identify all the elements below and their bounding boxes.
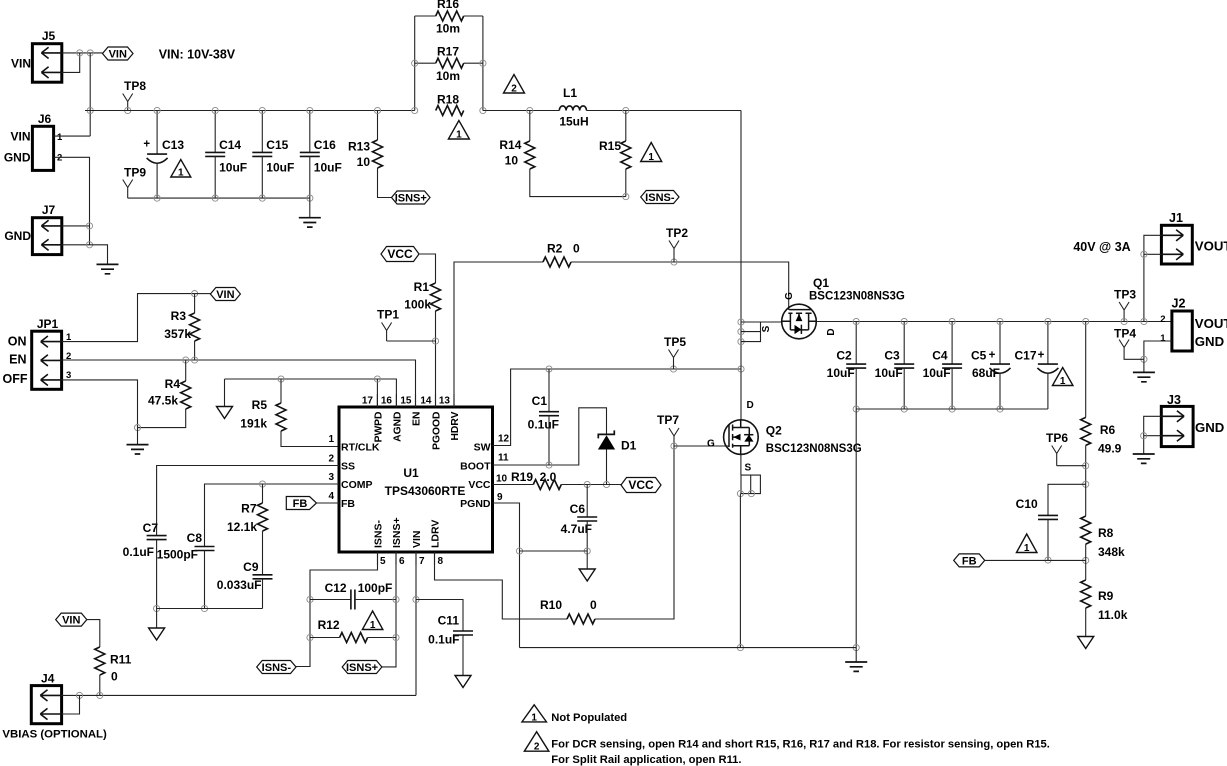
svg-text:0.1uF: 0.1uF	[528, 418, 559, 432]
svg-text:J7: J7	[42, 203, 56, 217]
connector JP1	[32, 331, 62, 389]
svg-text:49.9: 49.9	[1098, 442, 1122, 456]
svg-text:1: 1	[648, 152, 654, 163]
svg-text:SS: SS	[341, 461, 355, 473]
wire L1 to SW corner	[587, 110, 742, 112]
svg-text:10uF: 10uF	[314, 161, 342, 175]
svg-text:10m: 10m	[436, 69, 460, 83]
wire R10 to Q2 gate node	[595, 446, 674, 619]
svg-text:10m: 10m	[436, 22, 460, 36]
connector J4	[31, 686, 61, 724]
wire Q2 source to gnd bus	[739, 494, 741, 648]
wire JP1 pin3 to gnd	[62, 380, 138, 428]
svg-text:VIN: 10V-38V: VIN: 10V-38V	[159, 48, 236, 62]
svg-text:S: S	[745, 463, 752, 474]
svg-text:BSC123N08NS3G: BSC123N08NS3G	[766, 443, 862, 455]
svg-text:10: 10	[496, 474, 508, 485]
svg-text:TP7: TP7	[657, 413, 679, 427]
svg-text:1: 1	[531, 712, 537, 723]
svg-text:2.0: 2.0	[540, 470, 557, 484]
wire AGND pin17 drop	[376, 379, 378, 407]
wire J1 to rail	[1144, 235, 1162, 321]
wire SW vertical	[740, 111, 742, 420]
svg-text:ISNS+: ISNS+	[391, 517, 403, 548]
svg-text:1: 1	[1160, 333, 1166, 344]
svg-text:TP3: TP3	[1114, 288, 1136, 302]
svg-text:C11: C11	[438, 614, 460, 628]
svg-text:R16: R16	[437, 0, 459, 11]
svg-text:0.1uF: 0.1uF	[123, 545, 154, 559]
net flag VCC at R19	[621, 478, 661, 493]
svg-text:ISNS-: ISNS-	[645, 192, 675, 204]
note triangle 2	[504, 75, 525, 94]
svg-text:R13: R13	[348, 140, 370, 154]
wire J7 gnd to ground	[90, 245, 108, 265]
wire VIN rail	[85, 110, 415, 112]
svg-text:10uF: 10uF	[266, 161, 294, 175]
ground below J2	[1143, 359, 1145, 372]
svg-text:PGND: PGND	[460, 498, 491, 510]
svg-text:13: 13	[439, 396, 451, 407]
svg-text:11.0k: 11.0k	[1098, 608, 1128, 622]
svg-text:COMP: COMP	[341, 479, 373, 491]
wire input cap bottom bus	[128, 197, 310, 199]
wire VCC pin10 net	[493, 484, 534, 486]
ground bus bottom	[520, 647, 857, 649]
svg-text:1: 1	[456, 130, 462, 141]
svg-text:10: 10	[505, 154, 519, 168]
svg-text:TPS43060RTE: TPS43060RTE	[385, 484, 466, 498]
svg-text:C5: C5	[971, 349, 987, 363]
svg-text:ISNS+: ISNS+	[395, 193, 427, 205]
wire SW pin12 to TP5 row	[493, 369, 742, 446]
svg-text:G: G	[707, 439, 715, 450]
svg-text:100pF: 100pF	[358, 581, 393, 595]
svg-text:JP1: JP1	[37, 317, 59, 331]
svg-text:1: 1	[1060, 376, 1066, 387]
svg-text:C3: C3	[884, 349, 900, 363]
svg-text:J4: J4	[41, 672, 55, 686]
wire J2 pin1 gnd	[1144, 341, 1172, 359]
note triangle 1 at C17	[1052, 368, 1073, 386]
svg-text:VCC: VCC	[387, 247, 413, 261]
svg-text:0: 0	[573, 242, 580, 256]
svg-text:C12: C12	[325, 581, 347, 595]
connector J3	[1161, 406, 1193, 446]
svg-text:R15: R15	[599, 139, 621, 153]
main ground symbol	[855, 648, 857, 662]
svg-text:15: 15	[400, 396, 412, 407]
svg-text:AGND: AGND	[392, 412, 403, 442]
svg-text:For DCR sensing, open R14 and: For DCR sensing, open R14 and short R15,…	[551, 739, 1050, 751]
svg-text:GND: GND	[4, 151, 31, 165]
svg-text:R11: R11	[110, 653, 132, 667]
connector J2	[1172, 311, 1192, 351]
svg-text:VOUT: VOUT	[1195, 316, 1227, 331]
svg-text:17: 17	[362, 396, 374, 407]
wire HDRV up from pin13	[454, 262, 543, 407]
svg-text:FB: FB	[341, 498, 355, 510]
svg-text:1: 1	[328, 434, 334, 445]
svg-text:Not Populated: Not Populated	[551, 712, 627, 724]
svg-text:12.1k: 12.1k	[227, 520, 257, 534]
svg-text:PGOOD: PGOOD	[432, 412, 443, 450]
svg-text:0.033uF: 0.033uF	[217, 578, 262, 592]
ground below J3	[1133, 454, 1155, 463]
svg-text:S: S	[761, 325, 772, 332]
svg-text:C16: C16	[314, 138, 336, 152]
svg-text:ISNS-: ISNS-	[373, 519, 385, 548]
svg-text:VIN: VIN	[62, 615, 80, 627]
svg-text:3: 3	[328, 472, 334, 483]
svg-text:C7: C7	[143, 521, 159, 535]
svg-text:16: 16	[381, 396, 393, 407]
svg-text:PWPD: PWPD	[373, 412, 384, 443]
wire output cap bus	[856, 408, 1048, 410]
svg-text:TP8: TP8	[124, 79, 146, 93]
svg-text:2: 2	[57, 153, 62, 164]
svg-text:12: 12	[498, 434, 510, 445]
svg-text:J1: J1	[1169, 211, 1183, 225]
svg-text:D1: D1	[621, 439, 637, 453]
wire R2 to Q1 gate	[571, 262, 789, 310]
wire to VIN flag at R3	[195, 293, 211, 295]
svg-text:C9: C9	[243, 560, 259, 574]
svg-text:TP4: TP4	[1114, 327, 1136, 341]
svg-text:6: 6	[399, 556, 405, 567]
connector J7	[32, 218, 61, 255]
ground below J7	[97, 264, 119, 273]
svg-text:40V @ 3A: 40V @ 3A	[1073, 240, 1130, 254]
svg-text:C6: C6	[570, 502, 586, 516]
ground arrow below C6	[586, 551, 588, 569]
svg-text:Q2: Q2	[766, 424, 782, 438]
svg-text:BSC123N08NS3G: BSC123N08NS3G	[809, 291, 905, 303]
svg-text:R2: R2	[547, 242, 563, 256]
svg-text:GND: GND	[1195, 420, 1224, 435]
wire VBIAS row	[100, 694, 416, 696]
svg-text:TP5: TP5	[664, 335, 686, 349]
svg-text:8: 8	[438, 556, 444, 567]
svg-text:47.5k: 47.5k	[148, 394, 178, 408]
net flag VCC top	[381, 247, 419, 262]
svg-text:BOOT: BOOT	[460, 461, 491, 473]
svg-text:R9: R9	[1098, 589, 1114, 603]
ground below C16	[309, 198, 311, 218]
net flag ISNS+ bottom	[342, 661, 382, 674]
svg-text:2: 2	[328, 454, 334, 465]
svg-text:J3: J3	[1167, 393, 1181, 407]
net flag FB at pin4	[286, 497, 316, 510]
svg-text:C10: C10	[1016, 497, 1038, 511]
svg-text:9: 9	[497, 492, 503, 503]
svg-text:TP1: TP1	[377, 308, 399, 322]
wire VIN vertical J5 to rail	[89, 53, 91, 136]
ground arrow below C11	[455, 676, 471, 688]
wire Q2 source	[740, 454, 742, 475]
svg-text:R1: R1	[414, 280, 430, 294]
svg-text:VIN: VIN	[109, 49, 127, 61]
svg-text:C14: C14	[219, 138, 241, 152]
net flag VIN at R11	[56, 613, 87, 626]
net flag ISNS- top	[641, 191, 679, 204]
svg-text:J6: J6	[38, 112, 52, 126]
svg-text:R3: R3	[171, 309, 187, 323]
wire SS net	[157, 466, 339, 536]
svg-text:348k: 348k	[1098, 545, 1125, 559]
svg-text:R14: R14	[499, 138, 521, 152]
svg-text:R7: R7	[241, 502, 257, 516]
connector J1	[1161, 225, 1192, 264]
svg-text:VBIAS (OPTIONAL): VBIAS (OPTIONAL)	[2, 729, 107, 741]
svg-text:GND: GND	[1195, 334, 1224, 349]
U1 top pin stubs	[376, 394, 378, 407]
svg-text:7: 7	[419, 556, 425, 567]
svg-text:C4: C4	[932, 349, 948, 363]
svg-text:5: 5	[380, 556, 386, 567]
wire Q1 source to pads	[761, 321, 782, 323]
svg-text:ISNS+: ISNS+	[346, 662, 378, 674]
wire analog gnd bus	[157, 608, 263, 610]
wire pin5 ISNS- path	[296, 552, 378, 667]
svg-text:LDRV: LDRV	[430, 520, 442, 548]
svg-text:15uH: 15uH	[559, 115, 588, 129]
svg-text:ON: ON	[8, 335, 27, 349]
svg-text:EN: EN	[9, 353, 26, 367]
svg-text:FB: FB	[293, 498, 308, 510]
svg-text:2: 2	[511, 84, 517, 95]
wire PGND pin9 net	[493, 503, 520, 648]
svg-text:+: +	[989, 350, 996, 362]
ground arrow AGND	[224, 379, 226, 407]
svg-text:VOUT: VOUT	[1195, 238, 1227, 253]
ground arrow below C7 bus	[156, 609, 158, 629]
svg-text:+: +	[1038, 350, 1045, 362]
note triangle 1 at R15	[641, 143, 662, 162]
note triangle 1 at C13	[171, 160, 191, 178]
svg-text:1500pF: 1500pF	[157, 548, 198, 562]
svg-text:1: 1	[1024, 543, 1030, 554]
note triangle 2 legend	[524, 732, 549, 752]
svg-text:D: D	[826, 328, 837, 335]
svg-text:Q1: Q1	[813, 276, 829, 290]
wire rail to L1	[483, 110, 559, 112]
wire to C11	[416, 600, 463, 632]
svg-text:1: 1	[178, 168, 184, 179]
svg-text:VIN: VIN	[216, 289, 234, 301]
svg-text:VIN: VIN	[411, 530, 423, 548]
svg-text:GND: GND	[4, 229, 31, 243]
svg-text:14: 14	[420, 396, 432, 407]
connector J5	[32, 44, 61, 82]
ground below JP1	[137, 428, 139, 445]
svg-text:FB: FB	[962, 555, 977, 567]
svg-text:R8: R8	[1098, 526, 1114, 540]
svg-text:VIN: VIN	[11, 57, 31, 71]
svg-text:C2: C2	[836, 349, 852, 363]
svg-text:C15: C15	[266, 138, 288, 152]
svg-text:0: 0	[590, 598, 597, 612]
svg-text:J2: J2	[1172, 297, 1186, 311]
svg-text:VCC: VCC	[628, 478, 654, 492]
wire C2 down to gnd bus	[855, 409, 857, 648]
wire TP7 to Q2 gate	[674, 445, 730, 447]
svg-text:R18: R18	[437, 93, 459, 107]
svg-text:G: G	[784, 292, 795, 300]
svg-text:C17: C17	[1014, 349, 1036, 363]
wire sense bank right vertical	[482, 16, 484, 111]
svg-text:11: 11	[498, 453, 509, 464]
svg-text:R4: R4	[165, 377, 181, 391]
wire LDRV pin8 to R10	[435, 552, 568, 619]
wire FB row	[985, 559, 1086, 561]
svg-text:TP9: TP9	[124, 166, 146, 180]
svg-text:10uF: 10uF	[219, 161, 247, 175]
net flag VIN at J5	[103, 47, 134, 60]
svg-text:R12: R12	[318, 618, 340, 632]
wire JP1 pin1 to VIN flag	[62, 294, 195, 342]
svg-text:R6: R6	[1100, 423, 1116, 437]
note triangle 1 at R12	[362, 611, 383, 630]
wire J6 pin1 to VIN rail	[54, 135, 91, 137]
svg-text:For Split Rail application, op: For Split Rail application, open R11.	[551, 754, 741, 766]
svg-text:TP2: TP2	[666, 226, 688, 240]
svg-text:C13: C13	[162, 138, 184, 152]
wire pin6 ISNS+ vertical	[382, 552, 396, 667]
IC U1 TPS43060RTE box	[339, 407, 493, 552]
svg-text:D: D	[747, 400, 754, 411]
svg-text:VIN: VIN	[10, 130, 30, 144]
wire Q1 drain to output rail	[816, 321, 1172, 323]
net flag FB at R8	[954, 554, 985, 567]
svg-text:191k: 191k	[240, 417, 267, 431]
svg-text:TP6: TP6	[1046, 431, 1068, 445]
svg-text:EN: EN	[412, 412, 423, 426]
wire COMP net	[205, 484, 340, 547]
ground arrow below R9	[1078, 637, 1094, 649]
svg-text:C8: C8	[187, 531, 203, 545]
svg-text:L1: L1	[563, 86, 577, 100]
svg-text:ISNS-: ISNS-	[262, 662, 292, 674]
svg-text:100k: 100k	[404, 298, 431, 312]
net flag ISNS+ top	[392, 191, 431, 204]
svg-text:R10: R10	[540, 598, 562, 612]
U1 bottom pin stubs	[377, 552, 379, 565]
note triangle 1 below R18	[448, 121, 469, 140]
svg-text:2: 2	[1160, 314, 1165, 325]
wire J3 to gnd	[1144, 416, 1162, 454]
net flag ISNS- bottom	[257, 661, 296, 674]
svg-text:+: +	[143, 139, 150, 151]
MOSFET Q1 source pads	[741, 322, 761, 342]
note triangle 1 legend	[522, 705, 547, 722]
node VIN rail / J5-J6	[87, 107, 93, 113]
svg-text:1: 1	[370, 620, 376, 631]
svg-text:1: 1	[57, 132, 63, 143]
svg-text:J5: J5	[42, 29, 56, 43]
svg-text:R17: R17	[437, 45, 459, 59]
wire EN net	[62, 360, 416, 407]
svg-text:R19: R19	[511, 470, 533, 484]
wire pin7 VIN vertical	[415, 552, 417, 695]
wire J6 pin2 gnd vertical	[54, 157, 90, 245]
wire R6 to R8	[1085, 484, 1087, 516]
svg-text:0: 0	[111, 670, 118, 684]
wire AGND net	[225, 379, 397, 407]
wire sense bank left vertical	[414, 16, 416, 111]
svg-text:VCC: VCC	[468, 479, 491, 491]
connector J6	[32, 126, 53, 170]
svg-text:OFF: OFF	[3, 372, 28, 386]
svg-text:HDRV: HDRV	[450, 411, 461, 440]
MOSFET Q2 source pads	[741, 475, 760, 494]
wire C6 gnd bus	[520, 550, 588, 552]
svg-text:2: 2	[534, 742, 540, 753]
wire BOOT net	[493, 408, 607, 465]
net flag VIN at R3	[210, 288, 240, 301]
wire VCC to R1	[419, 254, 436, 283]
svg-text:357k: 357k	[164, 327, 191, 341]
svg-text:4: 4	[328, 491, 334, 502]
svg-text:SW: SW	[474, 442, 491, 454]
svg-text:C1: C1	[532, 394, 548, 408]
svg-text:U1: U1	[403, 466, 419, 480]
note triangle 1 at C10	[1016, 534, 1036, 553]
svg-text:10: 10	[357, 155, 371, 169]
svg-text:RT/CLK: RT/CLK	[341, 442, 380, 454]
svg-text:R5: R5	[252, 398, 268, 412]
